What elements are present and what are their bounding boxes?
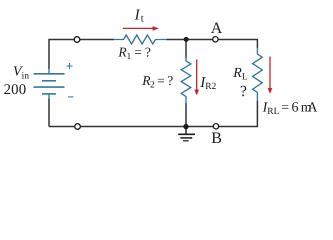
svg-text:A: A — [211, 20, 223, 37]
svg-text:B: B — [211, 130, 222, 147]
wire: middle branch upper stub (node to R2) — [185, 40, 187, 59]
resistor R1 (horizontal zigzag, top wire) — [114, 35, 167, 44]
junction dot at ground node — [183, 124, 188, 129]
svg-text:R1 = ?: R1 = ? — [117, 45, 150, 62]
wire: bottom wire — [49, 126, 258, 128]
svg-text:200: 200 — [4, 82, 27, 98]
current arrow I_RL (red, right of RL) — [268, 57, 273, 94]
wire: top wire left segment (from top-left corner to R1) — [49, 40, 114, 70]
resistor RL (vertical zigzag, right branch) — [253, 48, 263, 101]
battery minus sign — [68, 96, 74, 98]
node A terminal circle — [213, 37, 218, 42]
battery V_in (voltage source, left side) — [34, 69, 65, 99]
wire: right vertical below RL — [256, 101, 258, 127]
junction dot at R2 top node — [184, 37, 189, 42]
svg-text:IR2: IR2 — [199, 75, 216, 92]
ground symbol — [178, 127, 195, 141]
svg-text:It: It — [134, 8, 144, 25]
resistor R2 (vertical zigzag, middle branch) — [181, 57, 191, 104]
svg-text:IRL: IRL — [262, 100, 280, 117]
svg-text:=: = — [281, 100, 289, 115]
svg-text:Vin: Vin — [13, 65, 29, 82]
current arrow I_t (red, above R1) — [123, 26, 159, 31]
wire: left vertical below battery — [48, 99, 50, 127]
wire: top wire right segment (R1 to top-right corner) — [167, 40, 258, 49]
terminal circle bottom-left — [75, 124, 81, 130]
node B terminal circle — [213, 124, 218, 129]
wire: middle branch lower stub (R2 to ground node) — [185, 103, 187, 127]
battery plus sign — [67, 63, 73, 69]
terminal circle top-left — [74, 37, 80, 43]
svg-text:RL: RL — [232, 66, 248, 82]
svg-text:R2 = ?: R2 = ? — [141, 73, 173, 91]
current arrow I_R2 (red, right of R2) — [194, 60, 199, 96]
svg-text:6: 6 — [292, 100, 299, 115]
svg-text:mA: mA — [301, 100, 319, 115]
svg-text:?: ? — [240, 83, 247, 100]
